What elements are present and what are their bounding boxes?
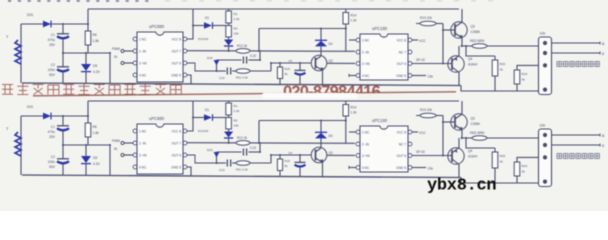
- svg-text:C3584: C3584: [471, 122, 481, 126]
- pin 6 IC2 (1): [408, 62, 412, 66]
- svg-text:10k: 10k: [234, 124, 239, 128]
- svg-text:D01: D01: [27, 105, 33, 109]
- ground rail (channel 2): [22, 175, 461, 178]
- capacitor C8 0.22 (1): [217, 59, 242, 61]
- wire IC2 GND pin5 (1): [412, 75, 426, 77]
- svg-text:A1644: A1644: [468, 155, 477, 159]
- pin 3 IC1 (1): [133, 61, 137, 65]
- diode D1 1N4148 (1): [193, 25, 204, 27]
- pin 4 IC2 (2): [356, 166, 360, 170]
- wire IC1 pin6 feedback (2): [187, 155, 217, 163]
- wire feedback top (2): [258, 121, 260, 143]
- svg-text:3k: 3k: [500, 160, 504, 164]
- svg-text:R20: R20: [500, 154, 506, 158]
- svg-text:4 NC: 4 NC: [362, 74, 370, 78]
- wire ground step to connector (channel 1): [461, 86, 540, 92]
- resistor R6 1.8k (1): [87, 9, 89, 31]
- svg-text:C3584: C3584: [471, 30, 481, 34]
- svg-text:470u: 470u: [48, 38, 56, 42]
- top +V rail (channel 1): [88, 8, 459, 10]
- wire base link Q3 Q4 (1): [442, 24, 444, 64]
- svg-text:C10: C10: [219, 76, 225, 80]
- svg-text:D9: D9: [93, 64, 97, 68]
- svg-text:D10: D10: [207, 148, 213, 152]
- connector CON1 (1): [539, 37, 552, 95]
- wire base drive (2): [271, 154, 316, 156]
- svg-text:R24: R24: [522, 72, 528, 76]
- svg-text:0.22: 0.22: [250, 54, 256, 58]
- svg-text:R15: R15: [285, 159, 291, 163]
- zener diode D9 4.3V (2): [85, 145, 87, 156]
- svg-text:VCC 8: VCC 8: [397, 38, 407, 42]
- svg-text:SP-02: SP-02: [416, 58, 425, 62]
- wire to R20 (2): [466, 138, 495, 148]
- label red watermark company name: [2, 84, 181, 95]
- resistor R2 10k (2): [228, 115, 230, 118]
- svg-text:R11 2.2k: R11 2.2k: [236, 168, 248, 172]
- pin connector CON1 (1): [543, 88, 547, 92]
- svg-text:2.2k: 2.2k: [234, 17, 240, 21]
- svg-text:13a: 13a: [428, 75, 434, 79]
- wire mid bus (channel 2): [62, 144, 110, 146]
- svg-text:D10: D10: [207, 56, 213, 60]
- svg-text:Q3: Q3: [471, 117, 475, 121]
- capacitor C2 100u filter (1): [62, 53, 64, 67]
- capacitor C1 470u filter (1): [62, 24, 64, 34]
- svg-text:Q2: Q2: [329, 151, 333, 155]
- svg-text:ybx8.cn: ybx8.cn: [427, 177, 496, 196]
- wire IC2 OUT pin6 to Q4 base (2): [412, 155, 448, 157]
- pin 2 IC2 (1): [356, 50, 360, 54]
- svg-text:25V: 25V: [49, 135, 56, 139]
- wire R11 to base node (1): [250, 70, 271, 72]
- svg-text:Q4: Q4: [468, 149, 472, 153]
- label output annotation (2): [557, 154, 599, 159]
- top +V rail (channel 2): [88, 100, 459, 102]
- svg-text:RED BRN: RED BRN: [470, 39, 485, 43]
- svg-text:OUT 6: OUT 6: [172, 61, 182, 65]
- pin connector CON1 (2): [543, 133, 547, 137]
- svg-text:C2: C2: [51, 155, 55, 159]
- svg-text:1.8k: 1.8k: [93, 131, 100, 135]
- transistor Q2 driver (2): [320, 139, 322, 149]
- svg-text:R14: R14: [351, 106, 357, 110]
- svg-text:R20: R20: [500, 62, 506, 66]
- svg-text:4 NC: 4 NC: [139, 73, 147, 77]
- svg-text:10A: 10A: [540, 124, 547, 128]
- wire IC1 GND pin5 (2): [187, 167, 191, 176]
- wire rectifier to node (channel 2): [51, 115, 88, 117]
- node PWM input (1): [121, 50, 124, 53]
- wire mid bus (channel 1): [62, 52, 110, 54]
- wire R11 to base node (2): [250, 162, 271, 164]
- pin 5 IC2 (1): [408, 74, 412, 78]
- wire IC2 OUT pin6 to Q4 base (1): [412, 63, 448, 65]
- label output annotation (1): [557, 62, 599, 67]
- svg-text:C1: C1: [51, 33, 55, 37]
- pin 8 IC2 (1): [408, 38, 412, 42]
- svg-text:R12 2k: R12 2k: [237, 136, 248, 140]
- wire IC1 pin6 feedback (1): [187, 63, 217, 71]
- wire IC2 VCC pin8 (2): [412, 131, 418, 133]
- svg-text:R19 10k: R19 10k: [420, 108, 432, 112]
- pin 4 IC1 (2): [133, 165, 137, 169]
- resistor R2 10k (1): [228, 23, 230, 26]
- wire output E (2): [552, 144, 601, 146]
- svg-text:D1/1N4: D1/1N4: [198, 37, 209, 41]
- svg-text:C2: C2: [51, 63, 55, 67]
- svg-text:OUT 6: OUT 6: [397, 154, 407, 158]
- transformer T1: [20, 24, 22, 83]
- svg-text:50V: 50V: [49, 73, 56, 77]
- resistor R14 1.2k (1): [345, 9, 347, 13]
- svg-text:3 +IN: 3 +IN: [362, 62, 370, 66]
- svg-text:Q4: Q4: [468, 57, 472, 61]
- svg-text:uPC180: uPC180: [372, 118, 388, 123]
- svg-text:470u: 470u: [48, 130, 56, 134]
- svg-text:Q3: Q3: [471, 25, 475, 29]
- wire IC2 pin1 stub (1): [349, 39, 356, 41]
- transistor Q2 driver (1): [320, 47, 322, 57]
- zener diode D9 4.3V (1): [85, 53, 87, 64]
- svg-text:R12 2k: R12 2k: [237, 44, 248, 48]
- svg-text:OUT 6: OUT 6: [172, 153, 182, 157]
- svg-text:3k: 3k: [522, 170, 526, 174]
- svg-text:2.2k: 2.2k: [234, 109, 240, 113]
- resistor R1 2.2k (2): [228, 101, 230, 103]
- svg-text:SP-02: SP-02: [416, 150, 425, 154]
- svg-text:VCC 8: VCC 8: [397, 130, 407, 134]
- svg-text:1.2k: 1.2k: [351, 19, 357, 23]
- pin 1 IC2 (2): [356, 130, 360, 134]
- svg-text:OUT 7: OUT 7: [172, 49, 182, 53]
- resistor R19 10k (1): [416, 23, 436, 25]
- transistor Q4 A1644 PNP (2): [448, 148, 464, 164]
- svg-text:OUT 6: OUT 6: [397, 62, 407, 66]
- transistor Q3 C3584 NPN (1): [461, 9, 463, 22]
- svg-text:D4: D4: [329, 134, 333, 138]
- resistor R6 1.8k (2): [87, 101, 89, 123]
- resistor R24 3k (1): [517, 65, 538, 70]
- svg-text:GND 5: GND 5: [396, 74, 406, 78]
- wire right bus drop (channel 1): [109, 53, 111, 84]
- svg-text:0.22: 0.22: [250, 146, 256, 150]
- pin 7 IC2 (1): [408, 50, 412, 54]
- svg-text:4.3V: 4.3V: [93, 70, 101, 74]
- resistor R11 2.2k (2): [236, 161, 250, 166]
- resistor R24 3k (2): [517, 157, 538, 162]
- zener diode D4 (1): [320, 29, 322, 41]
- pin 2 IC1 (2): [133, 141, 137, 145]
- node PWM input (2): [121, 142, 124, 145]
- pin 5 IC1 (2): [183, 165, 187, 169]
- svg-text:2 -IN: 2 -IN: [362, 50, 370, 54]
- resistor R1 2.2k (1): [228, 9, 230, 11]
- wire output node (1): [461, 45, 539, 47]
- pin 1 IC1 (1): [133, 37, 137, 41]
- svg-text:1.2k: 1.2k: [351, 111, 357, 115]
- zener diode D3 (2): [228, 129, 230, 132]
- wire IC2 pin4 stub (1): [349, 75, 356, 77]
- pin 2 IC1 (1): [133, 49, 137, 53]
- svg-text:4 NC: 4 NC: [139, 165, 147, 169]
- wire rectifier to node (channel 1): [51, 23, 88, 25]
- svg-text:C1: C1: [51, 125, 55, 129]
- resistor R12 2k (2): [236, 141, 250, 146]
- pin 6 IC2 (2): [408, 154, 412, 158]
- capacitor C10 series (2): [217, 162, 226, 164]
- pin 4 IC2 (1): [356, 74, 360, 78]
- wire base link Q3 Q4 (2): [442, 116, 444, 156]
- pin connector CON1 (1): [543, 51, 547, 55]
- svg-text:25V: 25V: [49, 43, 56, 47]
- svg-text:2 -IN: 2 -IN: [362, 142, 370, 146]
- svg-text:R2: R2: [234, 27, 238, 31]
- svg-text:GND 5: GND 5: [171, 73, 181, 77]
- svg-text:2 -IN: 2 -IN: [139, 49, 147, 53]
- svg-text:PWM: PWM: [112, 47, 120, 51]
- svg-text:R15: R15: [285, 67, 291, 71]
- svg-text:D01: D01: [27, 13, 33, 17]
- svg-text:100u: 100u: [48, 68, 56, 72]
- ground rail (channel 1): [22, 83, 461, 86]
- svg-text:R2: R2: [234, 119, 238, 123]
- pin 7 IC1 (2): [183, 141, 187, 145]
- svg-text:100u: 100u: [48, 160, 56, 164]
- resistor R13 (1): [279, 63, 281, 67]
- wire IC1 GND pin5 (1): [187, 75, 191, 84]
- resistor R14 1.2k (2): [345, 101, 347, 105]
- wire secondary to rectifier (channel 1): [21, 23, 43, 25]
- svg-text:C9: C9: [288, 59, 292, 63]
- svg-text:uPC880: uPC880: [149, 116, 165, 121]
- wire to R20 (1): [466, 46, 495, 56]
- pin 5 IC2 (2): [408, 166, 412, 170]
- svg-text:uPC180: uPC180: [372, 26, 388, 31]
- svg-text:4.3V: 4.3V: [93, 162, 101, 166]
- svg-text:D1/1N4: D1/1N4: [198, 129, 209, 133]
- resistor R11 2.2k (1): [236, 69, 250, 74]
- wire IC1 VCC pin8 to rail (1): [187, 9, 193, 39]
- svg-text:VCC: VCC: [419, 131, 426, 135]
- wire IC1 OUT pin7 bus (1): [187, 50, 355, 53]
- zener diode D3 (1): [228, 37, 230, 40]
- op-amp IC2 PWM driver uPC180 (1): [360, 34, 408, 80]
- svg-text:PWM: PWM: [112, 139, 120, 143]
- wire secondary to rectifier (channel 2): [21, 115, 43, 117]
- resistor R20 3k (2): [494, 148, 496, 152]
- svg-text:uPC880: uPC880: [149, 24, 165, 29]
- svg-text:GND 5: GND 5: [171, 165, 181, 169]
- pin 2 IC2 (2): [356, 142, 360, 146]
- wire output node (2): [461, 137, 539, 139]
- pin connector CON1 (2): [543, 155, 547, 159]
- pin 3 IC2 (1): [356, 62, 360, 66]
- wire IC1 VCC pin8 to rail (2): [187, 101, 193, 131]
- svg-text:1.8k: 1.8k: [93, 39, 100, 43]
- pin 8 IC2 (2): [408, 130, 412, 134]
- svg-text:1 NC: 1 NC: [139, 129, 147, 133]
- op-amp IC2 PWM driver uPC180 (2): [360, 126, 408, 172]
- pin 4 IC1 (1): [133, 73, 137, 77]
- svg-text:50V: 50V: [49, 165, 56, 169]
- svg-text:D4: D4: [329, 42, 333, 46]
- svg-text:13a: 13a: [428, 167, 434, 171]
- svg-text:1 NC: 1 NC: [139, 37, 147, 41]
- pin 3 IC1 (2): [133, 153, 137, 157]
- pin 6 IC1 (1): [183, 61, 187, 65]
- svg-text:1 NC: 1 NC: [362, 130, 370, 134]
- resistor R13 (2): [279, 155, 281, 159]
- svg-text:VCC: VCC: [419, 39, 426, 43]
- svg-text:R14: R14: [351, 14, 357, 18]
- pin connector CON1 (2): [543, 180, 547, 184]
- op-amp IC1 PWM controller uPC880 (1): [137, 32, 183, 82]
- wire ground step to connector (channel 2): [461, 178, 540, 184]
- wire output B (1): [552, 42, 601, 44]
- svg-text:R1: R1: [234, 104, 238, 108]
- pin connector CON1 (1): [543, 63, 547, 67]
- capacitor C8 0.22 (2): [217, 151, 242, 153]
- pin 7 IC1 (1): [183, 49, 187, 53]
- svg-text:3 +IN: 3 +IN: [139, 153, 147, 157]
- svg-text:A1644: A1644: [468, 63, 477, 67]
- diode D02 rectifier: [43, 113, 51, 120]
- diode D01 rectifier: [43, 21, 51, 28]
- pin 1 IC2 (1): [356, 38, 360, 42]
- svg-text:Q2: Q2: [329, 59, 333, 63]
- wire IC2 GND pin5 (2): [412, 167, 426, 169]
- connector CON1 (2): [539, 129, 552, 187]
- node junction dots (1): [62, 23, 64, 25]
- pin connector CON1 (2): [543, 143, 547, 147]
- wire IC2 pin1 stub (2): [349, 131, 356, 133]
- svg-text:D1: D1: [205, 16, 209, 20]
- diode D1 1N4148 (2): [193, 117, 204, 119]
- transistor Q4 A1644 PNP (1): [448, 56, 464, 72]
- svg-text:VCC 8: VCC 8: [172, 129, 182, 133]
- svg-text:RED BRN: RED BRN: [470, 131, 485, 135]
- resistor R21 output series (2): [472, 136, 487, 141]
- capacitor C9 (1): [299, 63, 301, 70]
- svg-text:2 -IN: 2 -IN: [139, 141, 147, 145]
- svg-text:3k: 3k: [522, 78, 526, 82]
- diode D10 (2): [216, 152, 218, 163]
- svg-text:R6: R6: [93, 33, 97, 37]
- svg-text:D9: D9: [93, 156, 97, 160]
- svg-text:3 +IN: 3 +IN: [139, 61, 147, 65]
- svg-text:D1: D1: [205, 108, 209, 112]
- wire IC1 OUT pin7 bus (2): [187, 142, 355, 145]
- wire output E (1): [552, 52, 601, 54]
- svg-text:3k: 3k: [500, 68, 504, 72]
- pin 6 IC1 (2): [183, 153, 187, 157]
- pin 3 IC2 (2): [356, 154, 360, 158]
- wire IC2 VCC pin8 (1): [412, 39, 418, 41]
- svg-text:R1: R1: [234, 12, 238, 16]
- pin connector CON1 (1): [543, 41, 547, 45]
- capacitor C10 series (1): [217, 70, 226, 72]
- svg-text:OUT 7: OUT 7: [172, 141, 182, 145]
- svg-text:C9: C9: [288, 151, 292, 155]
- diode D10 (1): [216, 60, 218, 71]
- svg-text:C10: C10: [219, 168, 225, 172]
- pin 5 IC1 (1): [183, 73, 187, 77]
- svg-text:NC 7: NC 7: [399, 50, 406, 54]
- node junction dots (2): [62, 115, 64, 117]
- wire feedback top (1): [258, 29, 260, 51]
- capacitor C9 (2): [299, 155, 301, 162]
- zener diode D4 (2): [320, 121, 322, 133]
- svg-text:1 NC: 1 NC: [362, 38, 370, 42]
- svg-text:R6: R6: [93, 125, 97, 129]
- svg-text:10A: 10A: [540, 32, 547, 36]
- wire right bus drop (channel 2): [109, 145, 111, 176]
- pin 8 IC1 (1): [183, 37, 187, 41]
- svg-text:R24: R24: [522, 164, 528, 168]
- resistor R20 3k (1): [494, 56, 496, 60]
- wire output B (2): [552, 134, 601, 136]
- resistor R21 output series (1): [472, 44, 487, 49]
- svg-text:NC 7: NC 7: [399, 142, 406, 146]
- pin 8 IC1 (2): [183, 129, 187, 133]
- capacitor C1 470u filter (2): [62, 116, 64, 126]
- svg-text:GND 5: GND 5: [396, 166, 406, 170]
- transistor Q3 C3584 NPN (2): [461, 101, 463, 114]
- svg-text:10k: 10k: [234, 32, 239, 36]
- resistor R12 2k (1): [236, 49, 250, 54]
- op-amp IC1 PWM controller uPC880 (2): [137, 124, 183, 174]
- svg-text:3 +IN: 3 +IN: [362, 154, 370, 158]
- svg-text:R19 10k: R19 10k: [420, 16, 432, 20]
- label red watermark underline: [33, 92, 456, 96]
- pin 7 IC2 (2): [408, 142, 412, 146]
- wire base drive (1): [271, 62, 316, 64]
- label white strip under phone number: [262, 93, 358, 99]
- svg-text:VCC 8: VCC 8: [172, 37, 182, 41]
- capacitor C2 100u filter (2): [62, 145, 64, 159]
- wire IC2 pin4 stub (2): [349, 167, 356, 169]
- resistor R19 10k (2): [416, 115, 436, 117]
- wire top cropped text row: [8, 0, 493, 2]
- transformer T2: [20, 116, 22, 175]
- svg-text:4 NC: 4 NC: [362, 166, 370, 170]
- svg-text:R11 2.2k: R11 2.2k: [236, 76, 248, 80]
- pin 1 IC1 (2): [133, 129, 137, 133]
